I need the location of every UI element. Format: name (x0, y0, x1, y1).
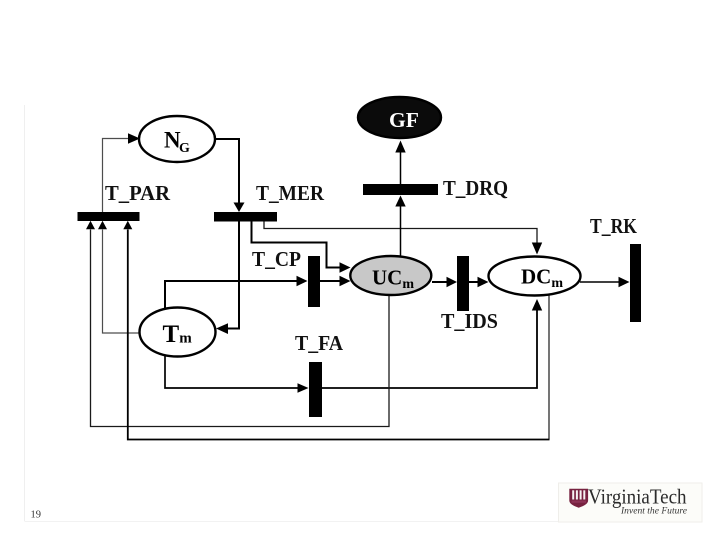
transition T_MER (214, 212, 277, 222)
place DC_m (489, 257, 581, 296)
wire T_MER to UC_m upper (252, 221, 351, 273)
place N_G (139, 116, 215, 162)
wire T_FA to DC_m (322, 299, 542, 388)
transition T_DRQ (363, 184, 438, 195)
wire T_CP to UC_m (320, 276, 351, 286)
wire UC_m to T_PAR left feedback (86, 221, 389, 427)
svg-text:VirginiaTech: VirginiaTech (588, 485, 687, 509)
wire T_m to T_CP (165, 276, 308, 310)
transition T_PAR (78, 212, 140, 221)
svg-text:T_RK: T_RK (590, 214, 638, 238)
wire UC_m to T_IDS (432, 277, 457, 287)
transition T_IDS (457, 256, 469, 311)
place GF (358, 97, 441, 138)
svg-text:T_PAR: T_PAR (105, 181, 171, 205)
wire N_G to T_MER (215, 139, 245, 212)
wire T_MER to T_m (216, 221, 239, 334)
svg-text:Invent the Future: Invent the Future (620, 507, 687, 517)
wire T_DRQ to GF (395, 141, 405, 185)
transition T_CP (308, 256, 320, 307)
logo VT shield (569, 489, 588, 508)
transition T_FA (309, 362, 322, 417)
place T_m (140, 308, 216, 357)
wire T_PAR to N_G (103, 133, 141, 212)
svg-text:T_IDS: T_IDS (441, 309, 498, 333)
wire UC_m to T_DRQ (395, 196, 405, 257)
wire T_m to T_PAR middle (98, 221, 140, 333)
faint placeholder border bottom (25, 521, 701, 523)
place UC_m (350, 256, 431, 295)
svg-text:T_FA: T_FA (295, 331, 344, 355)
svg-text:G: G (179, 141, 190, 156)
transition T_RK (630, 244, 641, 322)
wire T_MER to DC_m top (264, 221, 542, 255)
svg-text:T_MER: T_MER (256, 181, 325, 205)
wire DC_m to T_RK (580, 277, 630, 287)
wire DC_m to T_PAR right feedback (123, 221, 549, 440)
svg-text:19: 19 (31, 510, 42, 521)
svg-text:GF: GF (389, 108, 419, 132)
svg-text:T_DRQ: T_DRQ (443, 176, 508, 200)
wire T_IDS to DC_m (469, 277, 489, 287)
faint placeholder border left (24, 105, 26, 521)
wire T_m to T_FA (165, 354, 309, 393)
svg-text:T_CP: T_CP (252, 247, 301, 271)
logo box (559, 483, 703, 522)
